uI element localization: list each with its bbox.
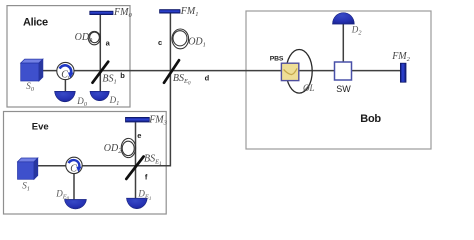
svg-text:Eve: Eve (32, 122, 49, 133)
svg-text:PBS: PBS (270, 55, 284, 62)
svg-text:d: d (205, 73, 210, 82)
svg-text:e: e (137, 131, 141, 140)
svg-text:Bob: Bob (360, 113, 381, 125)
svg-text:b: b (120, 71, 125, 80)
svg-text:SW: SW (336, 84, 351, 94)
svg-text:c: c (158, 38, 162, 47)
svg-text:ØL: ØL (302, 83, 315, 93)
svg-text:Alice: Alice (23, 16, 48, 28)
